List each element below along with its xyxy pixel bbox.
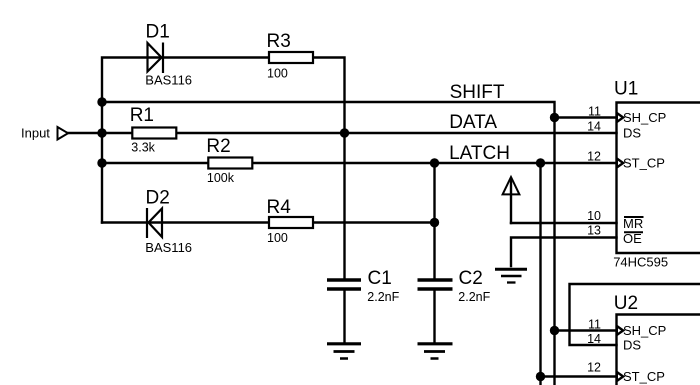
svg-text:R2: R2 (206, 136, 230, 157)
svg-text:2.2nF: 2.2nF (367, 290, 399, 304)
svg-text:BAS116: BAS116 (145, 73, 192, 88)
svg-text:12: 12 (587, 150, 601, 164)
svg-text:R3: R3 (267, 31, 291, 52)
svg-text:ST_CP: ST_CP (623, 156, 665, 171)
svg-text:ST_CP: ST_CP (623, 369, 665, 384)
svg-text:11: 11 (588, 317, 601, 331)
svg-text:R1: R1 (130, 105, 154, 126)
svg-text:U1: U1 (614, 79, 638, 100)
svg-text:BAS116: BAS116 (145, 240, 192, 255)
svg-text:Input: Input (21, 126, 50, 141)
svg-text:SH_CP: SH_CP (623, 323, 666, 338)
svg-text:LATCH: LATCH (449, 143, 510, 164)
svg-text:DATA: DATA (449, 112, 497, 133)
svg-text:100k: 100k (207, 171, 235, 185)
svg-text:U2: U2 (614, 293, 638, 314)
svg-text:C2: C2 (459, 268, 483, 289)
svg-text:100: 100 (267, 231, 288, 245)
svg-text:D1: D1 (146, 22, 170, 43)
svg-text:13: 13 (587, 224, 601, 238)
svg-text:12: 12 (587, 361, 601, 375)
svg-text:MR: MR (623, 216, 643, 231)
svg-text:R4: R4 (267, 197, 292, 218)
svg-text:D2: D2 (146, 188, 170, 209)
svg-text:2.2nF: 2.2nF (458, 290, 490, 304)
svg-text:3.3k: 3.3k (131, 141, 155, 155)
svg-text:11: 11 (588, 105, 601, 119)
svg-text:SH_CP: SH_CP (623, 110, 666, 125)
svg-text:10: 10 (587, 209, 601, 223)
svg-text:DS: DS (623, 126, 641, 141)
svg-text:14: 14 (587, 332, 601, 346)
svg-text:DS: DS (623, 338, 641, 353)
svg-text:100: 100 (267, 67, 288, 81)
svg-text:C1: C1 (368, 268, 392, 289)
svg-text:SHIFT: SHIFT (450, 82, 505, 103)
svg-text:OE: OE (623, 231, 642, 246)
svg-text:14: 14 (587, 120, 601, 134)
svg-text:74HC595: 74HC595 (613, 255, 668, 270)
